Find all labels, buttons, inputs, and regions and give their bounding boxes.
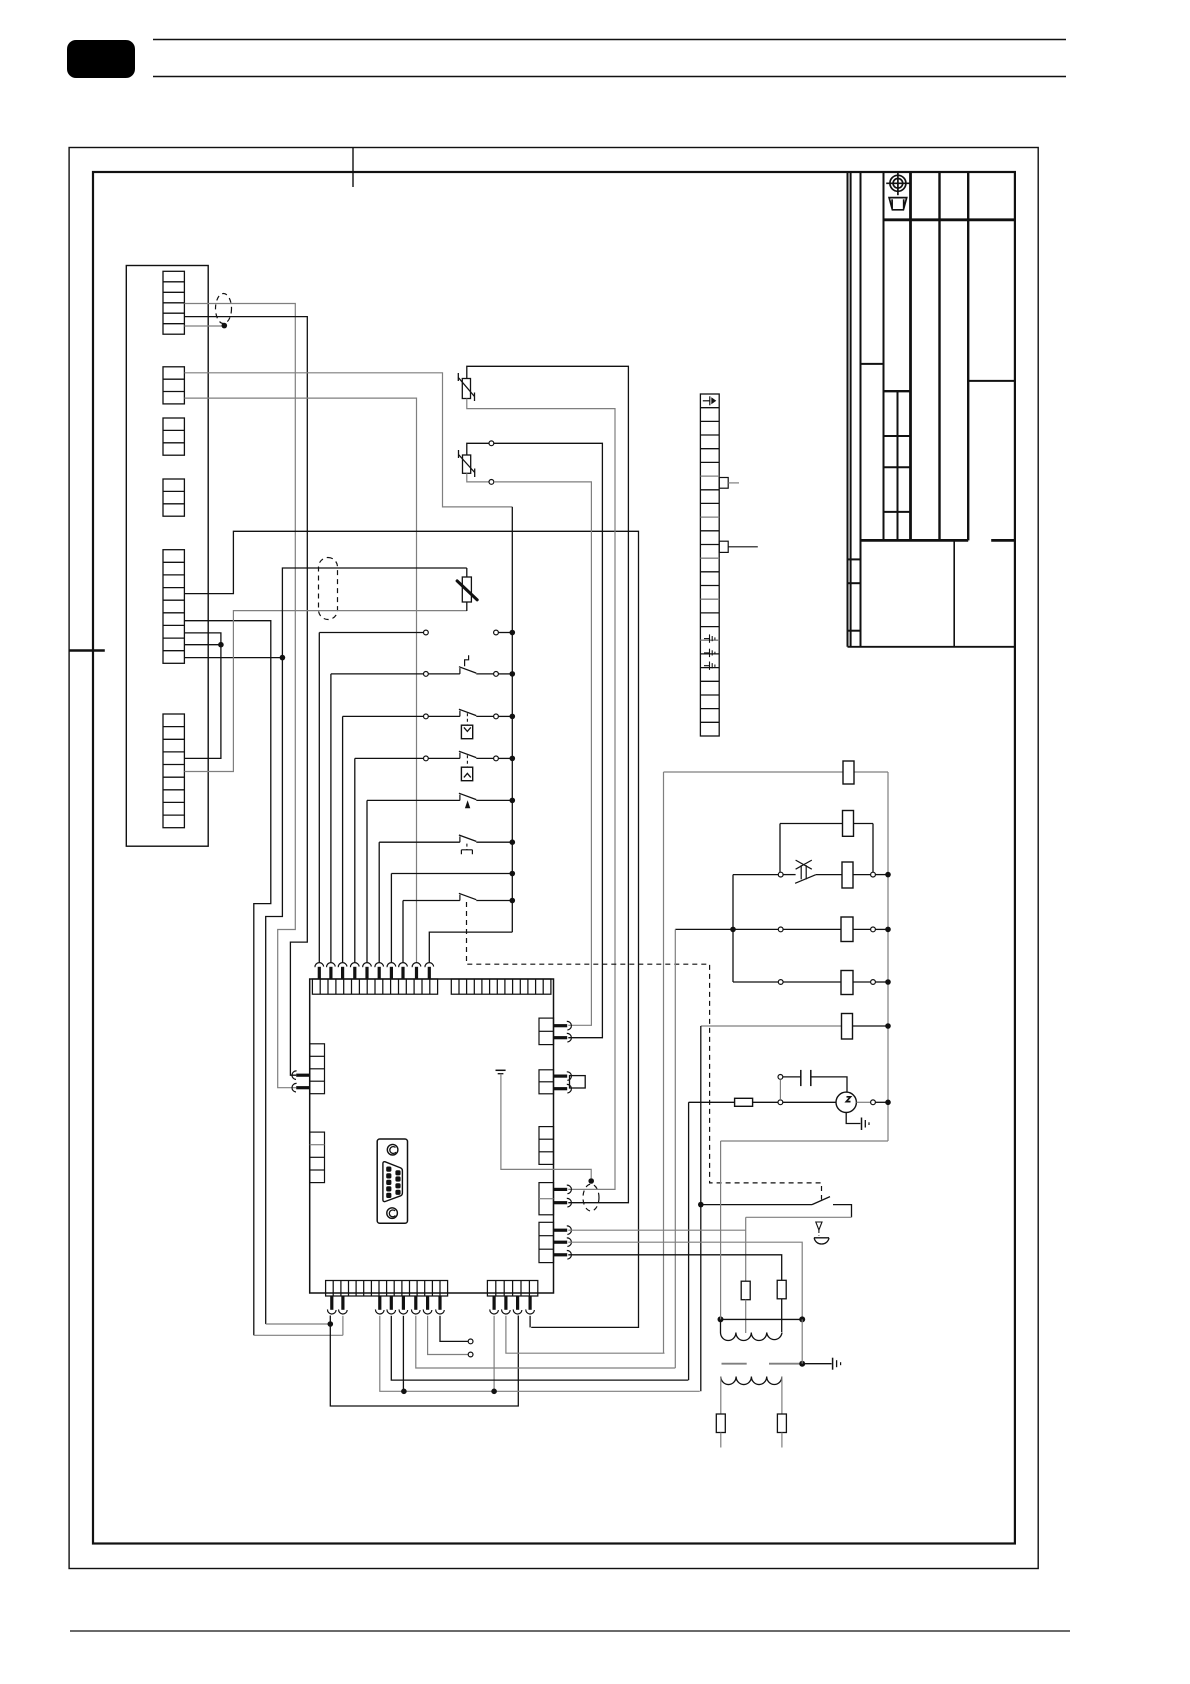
contact row 3 (switch, down-mode) (343, 715, 424, 717)
board top terminal strip 2 (451, 979, 551, 994)
title block frame (847, 172, 849, 647)
junction dot pin1 (328, 1321, 334, 1327)
wire S5-644 tap (184, 644, 221, 646)
cable shield E2 (319, 558, 338, 620)
wire RT1 top to RS4 pin2 (467, 366, 629, 1202)
board right stack RS5 (539, 1222, 554, 1262)
fuse F6 (842, 1014, 853, 1040)
shield junction dot (222, 323, 228, 329)
wire bundle A to pin2 (254, 1334, 343, 1336)
contact row 8 (pressure-linked switch) (403, 900, 460, 902)
footer rule (70, 1630, 1070, 1632)
wire RT1 bottom to RS4 pin1 (467, 399, 615, 1190)
transformer T1 primary winding (721, 1333, 783, 1341)
wire pin6 to riser (416, 1316, 676, 1368)
terminal stack S5 (163, 550, 184, 664)
supply riser left (663, 772, 665, 1353)
fold tick top (352, 148, 354, 188)
riser to fuse F8 (745, 1217, 747, 1281)
RS5 pin3 wire (568, 1255, 781, 1281)
contact row 7 (link) (391, 873, 512, 875)
X1 earth mark 1 (704, 634, 715, 642)
cable shield E3 (583, 1184, 599, 1211)
page badge (67, 40, 135, 78)
wire pin3/5/9 to riser (380, 1316, 700, 1392)
RS2 shorting link (570, 1076, 586, 1088)
board bottom pins (330, 1296, 333, 1310)
wire S5-657 tap (184, 657, 282, 659)
cable shield E1 (216, 294, 232, 324)
board right stack RS3 (539, 1127, 554, 1165)
terminal stack S4 (163, 479, 184, 516)
riser T1 left to bus (720, 1141, 722, 1319)
terminal stack S6 (163, 714, 184, 828)
wire pin12 riser (529, 1316, 531, 1328)
wire pin1 loop to pin11 (330, 1316, 518, 1407)
wire S5-632 to S6-758 (184, 633, 221, 759)
wire pin7 stub (428, 1316, 469, 1355)
outer drawing border (69, 148, 1038, 1569)
board bottom terminal strip 4 (487, 1281, 537, 1297)
wire S2-3 to pin9 (184, 398, 416, 962)
transformer core (722, 1363, 747, 1365)
contact row 6 (manual switch) (379, 841, 460, 843)
fuse F9 (777, 1280, 786, 1299)
connector column box (126, 266, 208, 847)
fuse F2 (843, 811, 854, 837)
riser row D / pressure node (700, 1026, 702, 1391)
wire S5-620 to bundle (184, 621, 270, 1336)
RS5 pin1 wire (568, 1229, 745, 1231)
secondary lead right (781, 1377, 783, 1415)
shield junction dot RS4 (588, 1178, 594, 1184)
board right plug pins (554, 1024, 568, 1027)
board top terminal strip 1 (312, 979, 437, 994)
potentiometer RP1 (462, 577, 471, 602)
contact row A (surge arrester) (778, 872, 783, 877)
wire S1-5 shield tail (184, 325, 224, 327)
board right stack RS1 (539, 1018, 554, 1045)
contact row C (733, 981, 778, 983)
board earth wire to shield (501, 1074, 591, 1179)
inner drawing border (93, 172, 1015, 1544)
fuse F11 (777, 1414, 786, 1433)
fuse F5 (841, 971, 853, 995)
board left stack B (310, 1132, 325, 1183)
X1 earth mark 2 (704, 649, 715, 657)
X1 earth mark 3 (704, 662, 715, 670)
control board outline (310, 979, 554, 1293)
terminal stack S2 (163, 367, 184, 404)
motor M1 (836, 1092, 856, 1112)
wire pin4 to riser (391, 1316, 688, 1380)
DB9 connector J1 (377, 1139, 407, 1223)
header rule bottom (153, 76, 1066, 78)
X1 polarity symbol (703, 396, 710, 405)
fuse F7 (735, 1098, 753, 1106)
thermistor RT1 (462, 379, 470, 399)
wire S1-3 to bundle (184, 304, 296, 1088)
wire S5-593 loop to strip4 pin12 (184, 531, 638, 1327)
board bottom terminal strip 3 (326, 1281, 448, 1297)
wire pin2 drop (342, 1316, 344, 1336)
motor row (689, 1101, 735, 1103)
header rule top (153, 39, 1066, 41)
riser motor row (688, 1102, 690, 1380)
mechanical link dashed to pressure switch (467, 902, 822, 1200)
X1 side tap upper (719, 478, 728, 489)
contact row B (675, 928, 778, 930)
contact row 4 (switch, up-mode) (355, 757, 424, 759)
power bus right (887, 772, 889, 1141)
wire S6-771 to potentiometer (184, 611, 466, 772)
wire pin8 stub (440, 1316, 468, 1342)
X1 side tap lower (719, 541, 728, 552)
motor earth (846, 1113, 860, 1124)
thermistor RT2 (463, 455, 471, 473)
wire bundle B to pin1 junction (266, 1323, 331, 1325)
relay coil loop K1 (780, 823, 873, 825)
fuse F1 (843, 761, 854, 784)
terminal stack S3 (163, 418, 184, 455)
wire pin10 to riser (506, 1316, 665, 1353)
relay bus bottom to pin10 (429, 932, 512, 962)
terminal strip X1 (700, 394, 719, 736)
fold tick left (69, 649, 105, 651)
wire RT2 bottom to RS1 pin1 (467, 473, 489, 482)
fuse F8 (741, 1281, 750, 1300)
capacitor branch (778, 1075, 783, 1080)
supply row F1 (664, 771, 844, 773)
wire S1-4 to bundle (184, 317, 307, 1076)
contact row 5 (actuated switch) (367, 799, 460, 801)
junction dot S5-644 (218, 642, 224, 648)
riser row B (674, 929, 676, 1368)
wire S2-1 to relay bus (184, 373, 512, 507)
row D (grey) (701, 1025, 842, 1027)
bus corner to T1 (721, 1140, 888, 1142)
pressure switch S2 (701, 1204, 812, 1206)
board right stack RS4 (539, 1183, 554, 1215)
board top pins 1-10 (318, 967, 321, 979)
fuse F3 (842, 862, 853, 888)
junction dot S5-657 (280, 655, 286, 661)
board left plug pins (296, 1074, 310, 1077)
row A riser (732, 875, 734, 982)
fuse F4 (841, 917, 853, 942)
first-angle projection symbol (886, 172, 909, 210)
screen earth (799, 1361, 805, 1367)
secondary lead left (720, 1377, 722, 1415)
board right stack RS2 (539, 1070, 554, 1094)
transformer T1 secondary winding (721, 1377, 782, 1385)
transformer T1 primary link (721, 1318, 803, 1320)
board left stack A (310, 1044, 325, 1094)
contact row 2 (limit switch) (331, 673, 424, 675)
RS5 pin2 wire (568, 1242, 802, 1319)
relay bus (511, 507, 513, 932)
contact row 1 (open) (319, 632, 423, 634)
wire potentiometer top to bundle (266, 568, 467, 1324)
fuse F10 (716, 1414, 725, 1433)
terminal stack S1 (163, 271, 184, 334)
wire RT2 top to RS1 pin2 (467, 443, 489, 455)
pressure diaphragm (814, 1238, 829, 1244)
board earth symbol (496, 1069, 506, 1071)
